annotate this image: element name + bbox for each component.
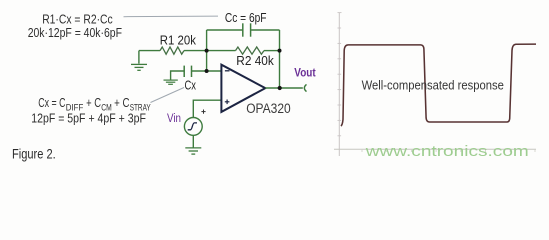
svg-text:+ C: + C — [114, 95, 129, 110]
svg-text:OPA320: OPA320 — [246, 101, 291, 116]
graph x-axis ticks — [362, 149, 535, 152]
svg-text:Cx = C: Cx = C — [38, 95, 65, 110]
waveform trace — [341, 44, 536, 126]
ground (Cx) — [164, 80, 178, 84]
svg-text:12pF = 5pF + 4pF + 3pF: 12pF = 5pF + 4pF + 3pF — [31, 111, 146, 126]
op-amp plus sign — [225, 100, 230, 105]
svg-text:R1 20k: R1 20k — [160, 33, 197, 48]
resistor R1 — [160, 47, 184, 54]
wire R2 to right vertical — [264, 50, 280, 52]
wire R1 to node A — [184, 50, 207, 52]
svg-text:Cx: Cx — [185, 78, 197, 93]
wire non-inverting input — [193, 100, 221, 117]
node junction dot inverting — [205, 69, 209, 73]
node A junction dot — [205, 49, 209, 53]
source Vin — [184, 118, 202, 136]
wire R1 input horizontal — [139, 50, 160, 52]
capacitor Cc — [243, 23, 251, 36]
svg-text:Cc = 6pF: Cc = 6pF — [225, 10, 267, 25]
wire Cx left lead — [171, 71, 185, 80]
svg-text:R2 40k: R2 40k — [236, 53, 274, 68]
svg-text:Figure 2.: Figure 2. — [12, 146, 56, 161]
wire node A vertical — [206, 30, 208, 71]
wire feedback top rail left — [207, 29, 243, 31]
wire right vertical to output — [279, 30, 281, 88]
graph y-axis ticks — [338, 13, 342, 136]
plus sign at source — [201, 110, 205, 114]
node junction dot output — [278, 86, 282, 90]
graph y-axis — [338, 13, 340, 156]
output terminal — [304, 84, 306, 91]
capacitor Cx — [184, 66, 191, 77]
svg-text:Well-compensated response: Well-compensated response — [362, 78, 504, 93]
wire inverting input — [192, 70, 222, 72]
ground (R1 input) — [131, 64, 147, 70]
svg-text:Vout: Vout — [294, 68, 316, 80]
source step symbol — [188, 123, 197, 130]
wire source to ground — [192, 135, 194, 147]
op-amp U1 OPA320 — [221, 65, 265, 112]
node junction dot right — [278, 49, 282, 53]
svg-text:www.cntronics.com: www.cntronics.com — [364, 144, 528, 160]
svg-text:+ C: + C — [86, 95, 101, 110]
resistor R2 — [236, 47, 265, 54]
pointer line to Cc label — [124, 15, 219, 18]
svg-text:Vin: Vin — [167, 113, 181, 125]
op-amp minus sign — [225, 70, 230, 72]
svg-text:20k·12pF = 40k·6pF: 20k·12pF = 40k·6pF — [28, 25, 122, 40]
ground (Vin) — [185, 148, 201, 154]
graph x-axis — [334, 148, 536, 150]
wire ground stub left — [138, 51, 140, 64]
wire feedback top rail right — [251, 29, 279, 31]
wire output — [265, 87, 303, 89]
wire node A to R2 — [207, 50, 236, 52]
pointer line to Cx label — [151, 88, 185, 103]
